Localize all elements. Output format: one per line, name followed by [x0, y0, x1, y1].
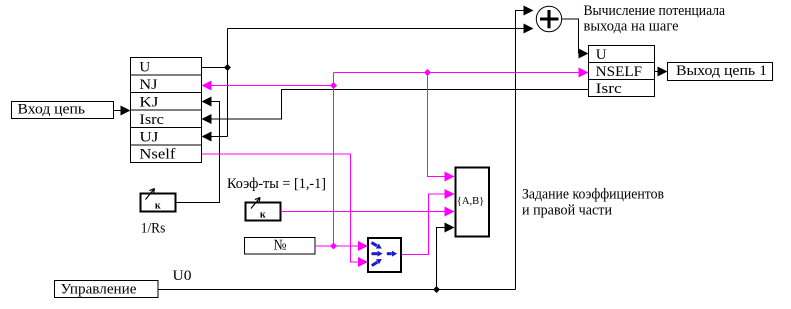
svg-text:1/Rs: 1/Rs	[141, 221, 166, 237]
wire Вход цепь -> B1	[114, 106, 131, 116]
svg-text:{A,B}: {A,B}	[457, 195, 485, 207]
svg-text:Isrc: Isrc	[596, 81, 622, 97]
svg-text:Задание коэффициентов: Задание коэффициентов	[522, 187, 664, 203]
svg-text:U0: U0	[173, 268, 192, 284]
svg-text:UJ: UJ	[139, 130, 158, 146]
wire magenta vertical N net	[333, 73, 335, 247]
wire U0 branch to {A,B}	[437, 223, 455, 290]
svg-text:NSELF: NSELF	[596, 64, 642, 80]
svg-text:Isrc: Isrc	[139, 112, 164, 128]
block port "Управление"	[55, 281, 159, 298]
wire Nself output to merger (magenta)	[202, 154, 369, 267]
wire U0 riser to summator	[516, 6, 534, 290]
wire NJ input (magenta)	[202, 81, 334, 91]
summator U1 (circle with plus)	[536, 6, 561, 31]
svg-text:Выход цепь 1: Выход цепь 1	[676, 63, 767, 79]
gain block K2 (к)	[246, 198, 281, 221]
svg-text:к: к	[155, 200, 161, 211]
wire 1/Rs to KJ	[177, 97, 220, 203]
merger block M1 (blue arrows icon)	[368, 238, 401, 272]
label Вычисление потенциала выхода на шаге	[584, 3, 726, 35]
svg-text:KJ: KJ	[139, 95, 158, 111]
block output port "Выход цепь 1"	[668, 63, 773, 81]
svg-text:Вычисление потенциала: Вычисление потенциала	[584, 3, 726, 19]
wire U output to junction	[202, 67, 228, 69]
block input port "Вход цепь"	[12, 102, 114, 119]
block B2 row labels	[596, 47, 642, 97]
svg-text:U: U	[139, 60, 150, 76]
wire B2 Isrc to B1 Isrc	[202, 90, 589, 125]
junction dot NJ	[330, 82, 337, 89]
wire junction vertical (sum feed / UJ loop)	[227, 29, 229, 137]
svg-text:Управление: Управление	[61, 282, 137, 298]
block B1 ports (U,NJ,KJ,Isrc,UJ,Nself)	[131, 58, 202, 163]
wire K2 output to {A,B} in3 (magenta)	[281, 207, 455, 217]
block B1 row labels	[139, 60, 175, 163]
svg-text:Nself: Nself	[139, 147, 175, 163]
svg-text:U: U	[596, 47, 607, 63]
wire № output (magenta)	[315, 241, 368, 251]
wire Управление U0 bus	[158, 289, 516, 291]
svg-text:выхода на шаге: выхода на шаге	[584, 19, 679, 35]
block №	[245, 238, 316, 255]
gain block 1/Rs (к)	[141, 189, 176, 212]
wire UJ loop back	[202, 132, 228, 142]
wire magenta branch to {A,B} in1	[428, 73, 455, 182]
junction dot U	[224, 64, 231, 71]
block {A,B}	[456, 168, 490, 237]
svg-text:к: к	[260, 209, 266, 220]
wire to summator lower input	[228, 24, 534, 34]
wire summator output to B2 U	[562, 19, 589, 59]
junction dot NSELF line	[424, 69, 431, 76]
block B2 ports (U,NSELF,Isrc)	[589, 46, 655, 97]
svg-text:Коэф-ты = [1,-1]: Коэф-ты = [1,-1]	[227, 176, 326, 192]
svg-text:и правой части: и правой части	[522, 203, 612, 219]
label Задание коэффициентов и правой части	[522, 187, 664, 219]
svg-text:NJ: NJ	[139, 77, 157, 93]
junction dot U0	[433, 286, 440, 293]
svg-text:№: №	[274, 238, 287, 254]
wire magenta top to NSELF	[334, 68, 589, 78]
svg-text:Вход цепь: Вход цепь	[18, 102, 86, 118]
wire merger output to {A,B} in2 (magenta)	[402, 189, 455, 255]
wire B2 NSELF -> Выход цепь 1	[655, 67, 668, 77]
junction dot №	[330, 243, 337, 250]
